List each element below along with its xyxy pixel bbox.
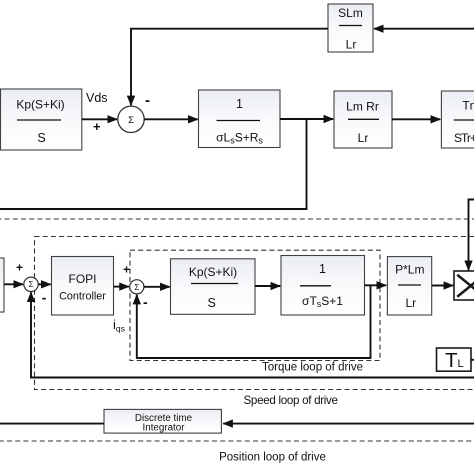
svg-text:Tm: Tm [462,99,474,113]
multiplier block X [454,271,474,300]
block speed reference (clipped at left edge) [0,258,4,312]
block 1/(sigma Ls S + Rs) stator dynamics [199,90,281,148]
svg-text:+: + [123,263,130,277]
label Speed loop of drive [244,394,338,407]
wire sigma Ts block to P*Lm block [365,284,387,286]
wire from right edge down into multiplier [469,200,474,271]
label Vds [86,91,108,105]
node iqs branch: torque current feedback path down and around to torque summing junction [137,285,371,358]
wire Kp block to summing junction [82,118,117,120]
svg-text:P*Lm: P*Lm [395,263,424,277]
wire TL to right edge [471,359,474,361]
svg-text:Σ: Σ [128,115,134,126]
block Tm/(STr+1) rotor dynamics (clipped at right edge) [441,91,474,148]
svg-text:σLsS+Rs: σLsS+Rs [216,131,263,146]
label Position loop of drive [219,452,326,464]
wire into integrator from right edge [223,423,474,425]
wire reference into speed summing junction [4,283,23,285]
svg-text:Kp(S+Ki): Kp(S+Ki) [16,98,64,112]
dashed box Speed loop of drive [35,237,474,390]
wire from SLm/Lr output down to summing junction [131,29,328,106]
svg-text:STr+1: STr+1 [454,131,474,145]
wire feedback into SLm/Lr block from right edge [374,28,474,30]
wire speed summing junction to FOPI [38,283,51,285]
svg-text:Torque loop of drive: Torque loop of drive [262,362,363,374]
svg-text:1: 1 [236,97,243,111]
block FOPI Controller [52,257,114,316]
svg-text:Integrator: Integrator [143,423,186,434]
block Discrete time Integrator [104,409,221,433]
svg-text:Controller: Controller [59,291,106,303]
svg-text:S: S [208,296,216,310]
dashed box Position loop of drive [0,219,474,441]
minus sign at top summing junction [145,92,150,109]
svg-text:Lr: Lr [358,131,369,145]
speed feedback wire from right edge to speed summing junction [31,292,474,377]
minus sign at torque summing junction [143,294,148,310]
block Lm Rr / Lr [334,91,392,148]
block TL load torque [437,348,472,372]
plus sign at speed summing junction [16,261,23,275]
label Torque loop of drive [262,362,363,374]
block 1/(sigma Ts S + 1) [281,256,365,316]
dashed box Torque loop of drive [130,250,380,360]
svg-text:Vds: Vds [86,91,108,105]
svg-text:S: S [37,131,45,145]
svg-text:-: - [42,290,47,306]
svg-text:Lm Rr: Lm Rr [346,100,379,114]
minus sign at speed summing junction [42,290,47,306]
wire Lm Rr block to rotor block [392,118,440,120]
summing junction torque loop [130,280,144,294]
wire Kp torque block to sigma Ts block [255,285,280,287]
plus sign at top summing junction [93,119,101,134]
wire stator block to Lm Rr block [280,118,333,120]
svg-text:Σ: Σ [134,283,139,292]
svg-text:-: - [143,294,148,310]
svg-text:SLm: SLm [338,6,363,20]
wire integrator output to left edge [0,423,104,425]
summing junction top (stator voltage) [118,106,144,132]
svg-text:σTsS+1: σTsS+1 [302,294,343,309]
svg-text:Kp(S+Ki): Kp(S+Ki) [189,265,237,279]
label iqs [113,317,125,334]
svg-text:Σ: Σ [29,280,34,289]
svg-text:1: 1 [319,262,326,276]
svg-text:-: - [145,92,150,109]
svg-text:Speed loop of drive: Speed loop of drive [244,394,338,407]
block SLm/Lr [328,4,373,52]
svg-text:Lr: Lr [346,38,357,52]
wire torque summing junction to Kp block [144,286,170,288]
svg-text:Position loop of drive: Position loop of drive [219,452,326,464]
wire summing junction to stator block [144,118,198,120]
svg-text:+: + [93,119,101,134]
wire FOPI to torque summing junction [114,286,129,288]
block Kp(S+Ki)/S (d-axis current controller) [1,89,82,150]
svg-text:Lr: Lr [405,296,416,310]
summing junction speed loop [24,277,38,291]
wire P*Lm block to multiplier [432,285,453,287]
plus sign at torque summing junction [123,263,130,277]
block P*Lm/Lr [387,257,431,315]
svg-text:+: + [16,261,23,275]
block Kp(S+Ki)/S torque PI controller [171,259,256,315]
svg-text:FOPI: FOPI [68,272,96,286]
svg-text:iqs: iqs [113,317,125,334]
node ids branch: vertical drop to flux feedback line [0,119,307,209]
